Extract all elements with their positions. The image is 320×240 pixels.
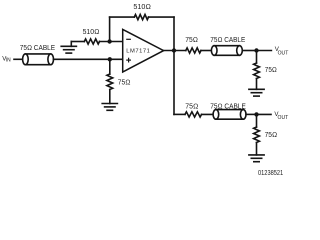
resistor 75-ohm input termination — [107, 74, 113, 90]
svg-text:LM7171: LM7171 — [126, 49, 150, 55]
wire top cable to VOUT node — [242, 50, 256, 52]
wire top termination to ground — [256, 79, 258, 90]
svg-text:75Ω: 75Ω — [185, 104, 198, 111]
wire minus rail: ground bend to op-amp minus input — [71, 41, 84, 43]
svg-text:75Ω: 75Ω — [265, 132, 278, 139]
resistor 75-ohm series (bottom branch) — [185, 112, 202, 117]
svg-text:75Ω CABLE: 75Ω CABLE — [210, 104, 246, 111]
wire termination resistor to ground — [109, 90, 111, 104]
resistor 75-ohm series (top branch) — [186, 48, 201, 53]
resistor 510-ohm feedback — [134, 15, 148, 20]
svg-text:75Ω CABLE: 75Ω CABLE — [20, 45, 56, 52]
svg-text:510Ω: 510Ω — [133, 4, 151, 11]
wire feedback down right side to lower branch — [173, 17, 175, 114]
wire feedback riser from minus node — [109, 17, 111, 41]
pin minus input sign — [127, 38, 131, 40]
svg-text:75Ω CABLE: 75Ω CABLE — [210, 37, 245, 44]
svg-text:01238521: 01238521 — [258, 170, 283, 177]
ground (gain-set resistor) — [61, 45, 76, 47]
node VOUT label (top) — [275, 46, 289, 56]
svg-text:75Ω: 75Ω — [118, 80, 131, 87]
wire lower branch horizontal run — [174, 113, 185, 115]
wire bottom cable to VOUT node — [246, 113, 257, 115]
svg-text:IN: IN — [6, 58, 11, 64]
wire op-amp output to node — [164, 50, 186, 52]
resistor 510-ohm gain-set to ground — [84, 39, 99, 44]
wire feedback top run — [110, 16, 135, 18]
wire bend down to left ground — [70, 42, 72, 47]
wire to bottom VOUT terminal — [257, 113, 272, 115]
ground (top branch) — [249, 88, 264, 90]
wire series resistor to top cable — [201, 50, 214, 52]
wire VIN to input cable — [14, 58, 23, 60]
wire bottom termination to ground — [256, 143, 258, 155]
node bottom VOUT junction — [254, 112, 258, 116]
node top VOUT junction — [254, 48, 258, 52]
wire top VOUT node down to termination resistor — [256, 51, 258, 64]
node plus-input junction — [108, 57, 112, 61]
node VOUT label (bottom) — [274, 111, 288, 121]
wire bottom VOUT node down to termination resistor — [256, 114, 258, 127]
resistor 75-ohm termination (bottom branch) — [254, 127, 260, 143]
svg-text:75Ω: 75Ω — [185, 37, 198, 44]
node VIN label — [2, 55, 11, 63]
node output junction — [172, 48, 176, 52]
ground (input termination) — [102, 103, 117, 105]
wire to top VOUT terminal — [257, 50, 272, 52]
op-amp U1 LM7171 — [123, 29, 164, 72]
wire series resistor to bottom cable — [202, 113, 216, 115]
svg-text:510Ω: 510Ω — [83, 29, 100, 36]
svg-text:75Ω: 75Ω — [265, 67, 277, 74]
resistor 75-ohm termination (top branch) — [254, 63, 260, 79]
coax cable W1 75-ohm input cable — [25, 53, 50, 55]
svg-text:OUT: OUT — [278, 115, 289, 121]
ground (bottom branch) — [249, 154, 264, 156]
node minus-input junction — [107, 39, 111, 43]
coax cable W3 75-ohm (bottom branch) — [216, 109, 243, 111]
wire input cable to op-amp plus input — [54, 58, 123, 60]
coax cable W2 75-ohm (top branch) — [214, 45, 239, 47]
wire plus node down to termination resistor — [109, 59, 111, 74]
svg-text:OUT: OUT — [278, 51, 289, 57]
pin plus input sign — [127, 58, 131, 62]
